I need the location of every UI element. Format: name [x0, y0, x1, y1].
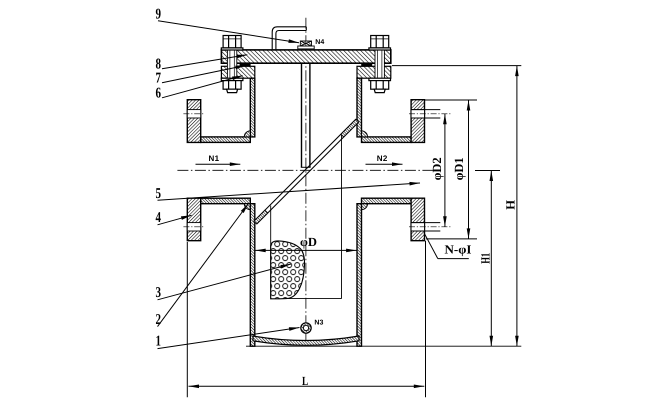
- strainer basket outline: [270, 206, 272, 299]
- svg-text:N4: N4: [315, 39, 324, 46]
- leader 5 to seat: [158, 183, 421, 200]
- L extension left: [186, 242, 188, 397]
- extension line flange top: [425, 99, 478, 101]
- leader 8 to cover: [162, 55, 247, 69]
- leader 3 to screen: [158, 264, 292, 300]
- svg-text:φD1: φD1: [452, 157, 466, 180]
- body upper wall right: [357, 78, 362, 137]
- extension line cover base: [392, 65, 521, 67]
- dimension H: [516, 66, 518, 347]
- pipe top wall left: [201, 137, 251, 143]
- bowl wall left: [250, 204, 255, 347]
- extension line flange bottom: [426, 238, 477, 240]
- strainer guide plate (diagonal): [254, 119, 356, 221]
- drain boss N3: [301, 323, 311, 333]
- svg-text:5: 5: [156, 186, 162, 202]
- bolt hole left (white gap through cover): [227, 50, 236, 78]
- bolt B2 right: [369, 36, 391, 93]
- svg-text:H: H: [503, 200, 517, 210]
- svg-text:φD2: φD2: [430, 157, 444, 180]
- leader 4 to pipe flange: [158, 215, 192, 225]
- svg-text:φD: φD: [300, 235, 317, 249]
- pipe flange right (hatched, with bore and bolt holes): [411, 100, 424, 241]
- left flange bolt hole centerlines: [183, 113, 203, 115]
- svg-text:4: 4: [156, 210, 162, 226]
- svg-text:3: 3: [156, 285, 162, 301]
- vent N4 body: [300, 41, 311, 46]
- cover plate (hatched): [221, 50, 390, 63]
- pipe bottom wall left: [201, 198, 251, 204]
- pipe top wall right: [362, 137, 412, 143]
- body flange left (hatched): [221, 66, 254, 78]
- L extension right: [425, 241, 427, 398]
- right flange bolt hole slot lines: [411, 109, 440, 111]
- dimension phiD1: [468, 100, 470, 239]
- svg-text:L: L: [302, 374, 308, 388]
- bottom baseline extension: [246, 345, 521, 347]
- basket screen section (perforated): [271, 241, 305, 299]
- flow arrow N1: [196, 163, 241, 165]
- svg-text:2: 2: [156, 312, 162, 328]
- bent tube on cover: [272, 27, 306, 50]
- dimension phiD: [255, 249, 306, 251]
- leader N-phiI: [424, 233, 438, 258]
- leader 7 to gasket: [162, 65, 246, 82]
- extension line centerline H1: [475, 170, 500, 172]
- dimension L: [189, 385, 307, 387]
- vessel vertical centerline: [305, 18, 307, 346]
- fillet left wall / top pipe wall: [244, 131, 250, 137]
- fillet right wall / bottom pipe wall: [362, 204, 368, 210]
- dimension phiD2: [444, 114, 446, 227]
- svg-text:9: 9: [156, 6, 162, 22]
- svg-text:7: 7: [156, 70, 162, 86]
- right flange bolt hole centerlines: [409, 113, 452, 115]
- leader 9 to vent: [158, 21, 299, 43]
- flow arrow N2: [366, 163, 403, 165]
- gasket left (black): [240, 63, 251, 66]
- guide plate upper sectioned end: [341, 119, 359, 137]
- dished bottom head: [253, 336, 359, 345]
- svg-text:N1: N1: [209, 154, 220, 163]
- fillet left wall / bottom pipe wall: [244, 204, 250, 210]
- bolt B1 left: [221, 36, 243, 93]
- guide plate lower sectioned end: [254, 210, 268, 224]
- body flange right (hatched): [357, 66, 391, 78]
- pipe horizontal centerline: [177, 169, 433, 171]
- fillet right wall / top pipe wall: [362, 131, 368, 137]
- bowl wall right: [357, 204, 362, 347]
- bolt hole right (white gap through cover): [375, 50, 384, 78]
- svg-text:N-φI: N-φI: [445, 243, 472, 257]
- svg-text:H1: H1: [478, 253, 492, 264]
- leader 2 to bowl shell: [158, 204, 249, 327]
- svg-text:1: 1: [156, 333, 162, 349]
- svg-text:6: 6: [156, 85, 162, 101]
- pipe flange left (hatched, with bore and bolt holes): [187, 100, 200, 241]
- svg-text:N3: N3: [314, 319, 323, 326]
- svg-text:N2: N2: [377, 154, 388, 163]
- dimension H1: [490, 171, 492, 347]
- gasket right (black): [361, 63, 372, 66]
- body upper wall left: [250, 78, 255, 137]
- pipe bottom wall right: [362, 198, 412, 204]
- leader 6 to body flange: [162, 76, 243, 98]
- vent N4 base plate: [298, 46, 314, 49]
- central stem tube: [301, 63, 303, 167]
- leader 1 to drain: [158, 328, 300, 349]
